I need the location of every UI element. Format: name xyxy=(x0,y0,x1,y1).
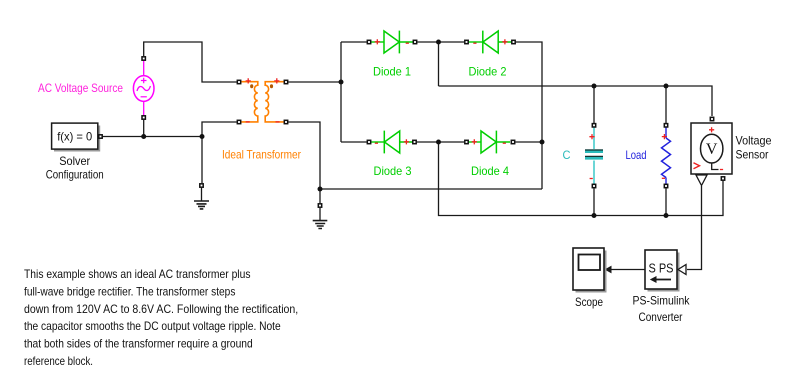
port: diode4 left xyxy=(465,140,468,143)
wire: converter to scope signal xyxy=(611,269,645,271)
wire: row2 diode3 left xyxy=(341,141,367,143)
port: diode2 right xyxy=(512,40,515,43)
transformer minus left xyxy=(246,121,250,123)
wire: AC source top to transformer top-left xyxy=(144,42,237,82)
svg-text:Converter: Converter xyxy=(639,310,683,324)
svg-text:f(x) = 0: f(x) = 0 xyxy=(57,129,92,143)
port: sensor bottom right xyxy=(721,177,724,180)
port: load bottom xyxy=(664,184,667,187)
svg-text:Diode 2: Diode 2 xyxy=(469,65,507,79)
wire: row1 diode2 right to AC2 vertical xyxy=(516,42,542,189)
voltage sensor U2 block xyxy=(691,123,732,174)
diode D2 (mirrored) xyxy=(469,31,512,54)
wire: row1 diode1 left xyxy=(341,41,367,43)
junction node: DC+ diodes xyxy=(436,40,441,45)
wire: row2 diode3 to diode4 xyxy=(417,141,464,143)
capacitor minus xyxy=(590,178,593,180)
capacitor plus xyxy=(589,134,594,139)
wire: row2 diode4 right xyxy=(516,141,543,143)
port: AC source top xyxy=(142,57,145,60)
diode D3 (points left) xyxy=(372,131,413,154)
wire: voltage sensor PS output down to converter xyxy=(687,186,702,270)
svg-text:Scope: Scope xyxy=(575,295,603,309)
svg-text:PS-Simulink: PS-Simulink xyxy=(633,294,691,308)
port: load top xyxy=(664,124,667,127)
transformer plus left xyxy=(246,78,251,83)
port: transformer bottom-left xyxy=(237,120,240,123)
port: transformer bottom-right xyxy=(284,120,287,123)
port: AC source bottom xyxy=(142,116,145,119)
ideal transformer right winding xyxy=(265,82,283,122)
svg-text:AC Voltage Source: AC Voltage Source xyxy=(38,81,123,95)
wire: load bottom drop xyxy=(665,189,667,216)
port: right ground xyxy=(318,204,321,207)
port: solver right xyxy=(99,135,102,138)
AC voltage source circle xyxy=(133,76,154,102)
voltage sensor circle xyxy=(701,134,723,163)
converter internal arrow xyxy=(656,279,672,281)
wire: solver output horizontal xyxy=(103,136,203,138)
load plus xyxy=(662,134,667,139)
load zigzag xyxy=(662,138,671,178)
port: diode1 left xyxy=(367,40,370,43)
load resistor R1 : leads xyxy=(665,128,667,187)
voltage sensor plus xyxy=(709,127,714,132)
port: transformer top-right xyxy=(284,80,287,83)
port: left ground xyxy=(200,184,203,187)
svg-text:down from 120V AC to 8.6V AC.: down from 120V AC to 8.6V AC. Following … xyxy=(24,302,298,316)
junction node: AC source bottom xyxy=(141,134,146,139)
port: sensor top xyxy=(710,117,713,120)
port: capacitor top xyxy=(592,124,595,127)
wire: AC source bottom lead to junction xyxy=(143,120,145,137)
port: diode1 right xyxy=(413,40,416,43)
right ground G2 xyxy=(319,208,321,221)
svg-text:S PS: S PS xyxy=(649,262,674,276)
svg-text:Diode 4: Diode 4 xyxy=(471,164,509,178)
junction node: diode4 right / AC2 xyxy=(540,140,545,145)
transformer plus right xyxy=(274,78,279,83)
wire: DC+ top rail to voltage sensor xyxy=(439,86,713,116)
PS-Simulink converter block xyxy=(645,250,677,289)
port: capacitor bottom xyxy=(592,184,595,187)
svg-text:Diode 1: Diode 1 xyxy=(373,65,411,79)
voltage sensor chevron xyxy=(694,163,700,169)
wire: transformer top-right to AC1 node xyxy=(289,81,342,83)
junction node: AC1 / transformer top right xyxy=(339,80,344,85)
voltage sensor minus red xyxy=(720,169,723,171)
wire: DC- rail from diode3/4 junction to sensor minus xyxy=(439,142,724,216)
svg-text:full-wave bridge rectifier. Th: full-wave bridge rectifier. The transfor… xyxy=(24,285,235,299)
wire: AC1 vertical (diode1/diode3 left) xyxy=(340,42,342,142)
wire: load top drop xyxy=(665,86,667,123)
AC source minus xyxy=(141,96,147,98)
svg-text:Diode 3: Diode 3 xyxy=(374,164,412,178)
svg-text:Load: Load xyxy=(626,148,647,162)
wire: right ground stem xyxy=(319,189,321,203)
AC voltage source V1 : leads xyxy=(143,61,145,116)
svg-text:This example shows an ideal AC: This example shows an ideal AC transform… xyxy=(24,267,251,281)
PS-Simulink converter block shadow xyxy=(648,253,680,292)
wire: capacitor top drop xyxy=(593,86,595,123)
junction node: right ground / AC2 xyxy=(318,187,323,192)
converter input triangle port xyxy=(678,265,686,275)
scope block xyxy=(573,248,604,290)
svg-text:V: V xyxy=(706,141,718,158)
transformer polarity dot left xyxy=(250,84,253,88)
transformer polarity dot right xyxy=(270,84,273,88)
scope screen xyxy=(579,255,601,271)
voltage sensor internal lead xyxy=(712,163,719,170)
svg-text:C: C xyxy=(563,148,571,162)
solver configuration block U1 xyxy=(52,123,98,149)
svg-text:Sensor: Sensor xyxy=(736,147,769,161)
svg-text:Solver: Solver xyxy=(59,154,90,168)
arrowhead into scope xyxy=(605,266,612,274)
port: diode4 right xyxy=(511,140,514,143)
port: diode3 right xyxy=(413,140,416,143)
port: diode3 left xyxy=(367,140,370,143)
wire: DC+ vertical from diode junction xyxy=(438,42,440,86)
diode D4 xyxy=(469,131,511,154)
wire: capacitor bottom drop xyxy=(593,189,595,216)
junction node: DC- diodes xyxy=(436,140,441,145)
junction node: load bottom rail xyxy=(664,213,669,218)
svg-text:Configuration: Configuration xyxy=(46,168,104,182)
AC source plus xyxy=(141,78,147,84)
AC source sine xyxy=(137,86,150,91)
wire: row1 diode1 to diode2 xyxy=(418,41,465,43)
transformer minus right xyxy=(276,121,280,123)
wire: transformer bottom-left to left ground xyxy=(202,122,237,183)
port: transformer top-left xyxy=(237,80,240,83)
junction node: cap top rail xyxy=(592,84,597,89)
svg-text:the capacitor smooths the DC o: the capacitor smooths the DC output volt… xyxy=(24,319,281,333)
svg-text:Ideal Transformer: Ideal Transformer xyxy=(222,148,301,162)
capacitor plates xyxy=(585,151,603,158)
load minus xyxy=(662,177,665,179)
port: diode2 left xyxy=(465,40,468,43)
svg-text:reference block.: reference block. xyxy=(24,354,93,368)
voltage sensor PS triangle xyxy=(696,175,707,186)
description paragraph xyxy=(24,267,298,368)
junction node: solver/transformer ground xyxy=(200,134,205,139)
diode D1 xyxy=(372,31,414,54)
wire: transformer bottom-right to right ground / AC2 xyxy=(289,122,543,189)
solver configuration block shadow xyxy=(54,126,100,152)
ideal transformer T1 : left winding xyxy=(242,82,258,122)
junction node: cap bottom rail xyxy=(592,213,597,218)
svg-text:Voltage: Voltage xyxy=(736,133,772,147)
scope block shadow xyxy=(576,251,607,293)
left ground G1 xyxy=(201,188,203,201)
capacitor C : leads xyxy=(593,128,595,187)
junction node: load top rail xyxy=(664,84,669,89)
svg-text:that both sides of the transfo: that both sides of the transformer requi… xyxy=(24,337,253,351)
